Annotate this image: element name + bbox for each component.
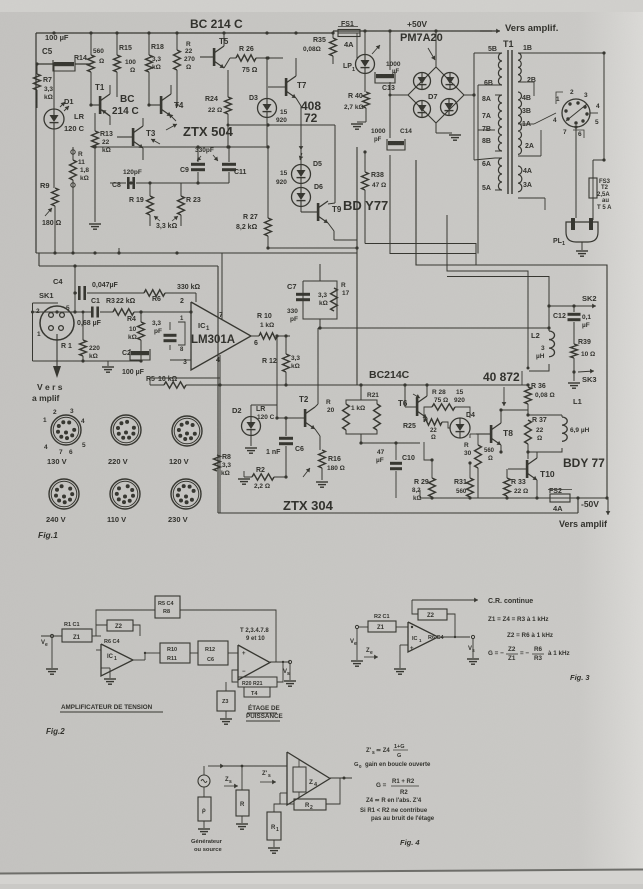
ground R1 fig4 [268, 847, 280, 849]
capacitor C4 [78, 286, 81, 300]
resistor R7 [34, 74, 41, 90]
transistor T2 [304, 409, 307, 427]
resistor R10 [259, 333, 277, 339]
transformer left connections [474, 52, 495, 54]
ground output fig3 [467, 658, 479, 660]
resistor R15 [114, 55, 121, 72]
capacitor C11 [222, 163, 236, 166]
op-amp IC1 fig2 [101, 644, 133, 676]
ground fig2 out [284, 680, 296, 682]
current arrows D5 wire [300, 143, 302, 150]
wire long vertical x357 [356, 33, 358, 58]
resistor R1 fig4 [267, 812, 281, 840]
output fig4 [330, 777, 352, 779]
feedback wire fig2 [96, 610, 155, 625]
impedance Z3 fig2 [217, 691, 235, 711]
parallel R17 loop [303, 281, 337, 319]
transistor T10 [526, 460, 529, 478]
wire pin3 input [170, 359, 191, 361]
wire bridge to transformer [464, 94, 474, 96]
wire baseline lower [33, 360, 142, 362]
ground lower mid [107, 361, 109, 366]
ground left R2 [238, 478, 250, 480]
transistor T3 [132, 128, 135, 146]
wire bias chain y125 [228, 124, 335, 126]
resistor R19 [147, 196, 154, 215]
wire corner C [416, 160, 607, 498]
connector 130V [51, 415, 81, 445]
block R5C4 R8 fig2 [155, 596, 180, 618]
resistor R29 [429, 478, 436, 497]
led D3 [258, 99, 277, 118]
input Ve fig3 [355, 625, 358, 628]
wire corner E [447, 277, 549, 307]
resistor R36 [525, 387, 532, 404]
resistor R30 [475, 445, 482, 468]
resistor R40 [363, 92, 370, 108]
resistor R16 [319, 450, 326, 468]
resistor R25 [424, 419, 442, 425]
resistor R1 [80, 340, 87, 356]
inductor L2 [548, 306, 550, 331]
block R20 R21 T4 fig2 [238, 677, 277, 687]
transistor T6 [416, 398, 419, 416]
resistor R2 [252, 474, 274, 480]
ground below PL1 [576, 250, 588, 252]
output fig3 [438, 636, 470, 638]
transformer left winding 5B-6B [498, 53, 502, 85]
led D5 [292, 165, 311, 184]
resistor R8 [214, 455, 221, 471]
wire R38 down [364, 190, 366, 244]
resistor R4 [138, 322, 145, 340]
connector 120V [172, 416, 202, 446]
wire bridge left vertex [390, 94, 408, 96]
capacitor C7 [296, 293, 310, 296]
wire bottom rail upper B [39, 265, 218, 267]
ground below D2 [245, 447, 257, 449]
transistor T9 [317, 203, 320, 221]
led D6 [292, 188, 311, 207]
ground below R13 [89, 223, 101, 225]
plug PL1 [566, 222, 598, 242]
ground below SK3 [573, 372, 575, 381]
transistor T4 [160, 96, 163, 114]
capacitor C13 [376, 74, 394, 78]
paper grain [0, 0, 1, 1]
block R12 C6 fig2 [198, 641, 228, 665]
wire cap row [136, 182, 229, 184]
wire link rails left [38, 253, 40, 266]
transistor T7 [285, 78, 288, 96]
connector 230V [171, 479, 201, 509]
transformer T1 core [507, 50, 509, 194]
ground bridge [449, 134, 461, 136]
ground below R16 [316, 481, 328, 483]
op-amp fig4 [287, 752, 330, 805]
resistor R35 [330, 38, 337, 56]
wire SK1 row [33, 311, 92, 313]
page bottom edge [0, 869, 643, 884]
capacitor C6 [279, 437, 293, 440]
wire corner A [365, 244, 476, 266]
wire generator out fig4 [203, 766, 205, 775]
impedance Z2 fig2 [107, 620, 133, 631]
wire corner D [447, 215, 528, 368]
transformer right winding 1B-2B [518, 53, 521, 82]
parallel R20 R21 [346, 400, 377, 404]
wire corner B [390, 155, 476, 254]
arrow vers amplif SK1 [56, 334, 58, 366]
transformer right winding 4A-3A [518, 166, 522, 192]
wire input drop [74, 266, 76, 293]
impedance Z2 fig3 [418, 609, 447, 620]
ground opamp fig3 [394, 668, 406, 670]
transformer right connections [526, 52, 604, 54]
led D4 [450, 418, 470, 438]
fuse FS1 [338, 30, 360, 37]
transistor T8 [490, 425, 493, 443]
resistor R22 270 [174, 50, 181, 70]
wire output rail [357, 384, 361, 386]
wire top rail +50V [333, 30, 492, 32]
wire pin4 [219, 355, 221, 513]
transformer left winding 8A-8B [498, 95, 502, 151]
figure 3 CR continue [455, 599, 478, 601]
op-amp IC1 [191, 302, 251, 370]
generator circle fig4 [198, 775, 210, 787]
wire top rail left [36, 32, 333, 34]
resistor R13 [92, 131, 99, 148]
connector 240V [49, 479, 79, 509]
wire socket down [575, 127, 577, 218]
resistor R38 [362, 172, 369, 190]
led D2 [242, 417, 261, 436]
resistor R5 [164, 382, 186, 388]
capacitor C14 [388, 141, 404, 145]
transistor T5 [213, 48, 216, 66]
ground Ve fig3 [351, 660, 363, 662]
ground fig2 input [46, 668, 58, 670]
resistor R31 [467, 478, 474, 497]
resistor R24 [225, 97, 232, 114]
op-amp output stage fig2 [238, 645, 270, 680]
ground below Z3 [220, 718, 232, 720]
capacitor C5 [54, 62, 74, 66]
wire mid rail y385 [220, 384, 528, 386]
terminal SK2 [549, 305, 591, 307]
resistor R6 [144, 290, 165, 296]
resistor R12 [283, 354, 290, 372]
wire bottom rail upper A [36, 252, 357, 254]
ground fig2 opamp [109, 668, 111, 678]
resistor R33 [504, 478, 511, 496]
ground generator fig4 [198, 828, 210, 830]
feedback network fig4 [280, 792, 287, 794]
transformer right winding 4B-2A [518, 92, 522, 154]
wire left edge [35, 33, 37, 253]
junction dots [52, 31, 55, 34]
wire T2 base drop [276, 336, 278, 418]
capacitor C3 [164, 334, 177, 337]
wire fig2 Z1 out [92, 635, 101, 637]
resistor R28 [432, 404, 455, 410]
resistor R18 [146, 55, 153, 72]
resistor R box fig4 [236, 790, 249, 816]
capacitor C2 [131, 351, 149, 355]
wire lower frame left [217, 266, 219, 513]
led D1 [44, 109, 64, 129]
capacitor C12 [568, 313, 581, 316]
arrow vers amplif top [480, 30, 500, 32]
resistor R26 [236, 55, 256, 61]
capacitor C10 [390, 462, 402, 465]
connector 110V [110, 479, 140, 509]
wire fig2 out [270, 661, 290, 663]
transformer left winding 6A-5A [498, 158, 502, 190]
wire -50V rail [420, 497, 607, 499]
terminal SK3 [578, 371, 594, 372]
impedance Z1 fig3 [368, 621, 396, 632]
wire opamp out fig2 [133, 659, 145, 661]
resistor R27 [265, 218, 272, 236]
capacitor C1 [91, 307, 94, 318]
ground below R40 [351, 123, 363, 125]
wire mid horizontal y147 [95, 146, 268, 148]
impedance Z1 fig2 [62, 629, 92, 642]
transistor T1 [99, 96, 102, 114]
fuse FS2 [550, 494, 570, 502]
figure 2 input terminal [50, 634, 53, 637]
wire inner box [356, 147, 358, 385]
resistor R39 [571, 344, 578, 358]
wire lower frame bottom [218, 512, 578, 514]
bridge rectifier D7 [408, 67, 464, 123]
connector 220V [111, 415, 141, 445]
resistor R14 560 [88, 55, 95, 72]
lamp LP1 [356, 55, 375, 74]
arrow vers amplif bottom [607, 499, 609, 515]
voltage selector socket [562, 99, 590, 127]
generator impedance box fig4 [198, 797, 211, 821]
resistor R11 [70, 160, 77, 180]
fuse FS3 [589, 178, 597, 198]
resistor R3 [113, 309, 134, 315]
block R10 R11 fig2 [160, 643, 190, 663]
wire pin7 [221, 253, 223, 320]
impedance Z4 fig4 [293, 767, 306, 792]
resistor R9 [52, 188, 59, 206]
resistor R23 [178, 196, 185, 215]
op-amp fig3 [408, 622, 438, 652]
plus input fig3 [400, 644, 408, 646]
wire VAS rail y328 [318, 327, 549, 329]
capacitor C9 [191, 163, 205, 166]
capacitor C8 [127, 177, 130, 189]
resistor R37 and L1 [528, 414, 562, 416]
wire D1 to R9 [53, 129, 55, 188]
ground R fig4 [236, 823, 248, 825]
